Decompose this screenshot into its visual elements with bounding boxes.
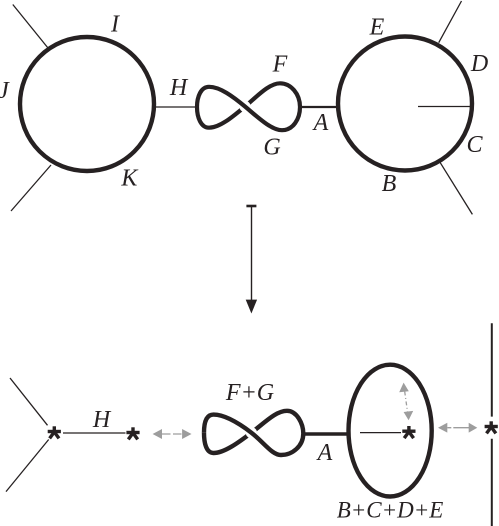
svg-text:K: K bbox=[120, 166, 139, 192]
svg-text:H: H bbox=[169, 75, 189, 101]
svg-text:F+G: F+G bbox=[225, 380, 274, 406]
svg-text:I: I bbox=[110, 12, 120, 38]
svg-text:A: A bbox=[316, 440, 333, 466]
svg-text:J: J bbox=[0, 78, 10, 104]
svg-text:F: F bbox=[272, 52, 288, 78]
svg-text:B: B bbox=[382, 171, 397, 197]
svg-text:E: E bbox=[369, 14, 385, 40]
svg-text:C: C bbox=[466, 132, 483, 158]
svg-text:G: G bbox=[263, 135, 280, 161]
svg-text:H: H bbox=[92, 407, 112, 433]
svg-text:A: A bbox=[312, 110, 329, 136]
svg-text:B+C+D+E: B+C+D+E bbox=[337, 497, 444, 522]
svg-text:D: D bbox=[470, 51, 488, 77]
